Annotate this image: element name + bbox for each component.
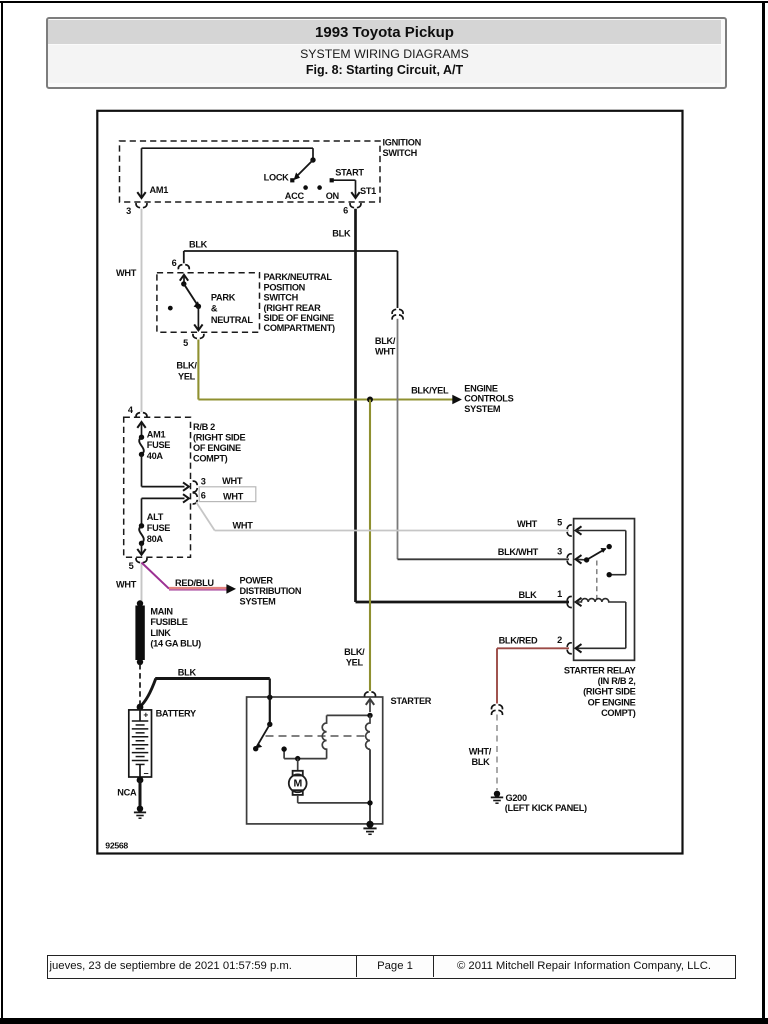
battery plates: [132, 720, 149, 722]
svg-text:SYSTEM: SYSTEM: [464, 404, 501, 414]
header title bar: [48, 20, 721, 44]
wire WHT R/B2 to fusible link: [141, 563, 143, 604]
svg-text:3: 3: [557, 547, 562, 557]
svg-text:&: &: [211, 304, 218, 314]
ignition switch dashed box: [120, 141, 381, 202]
svg-text:2: 2: [557, 635, 562, 645]
svg-text:5: 5: [557, 517, 562, 527]
svg-text:ENGINE: ENGINE: [464, 383, 498, 393]
relay coil to pin 2 wire: [625, 602, 627, 648]
arrow to engine controls system: [452, 395, 462, 405]
inline connector C on BLK/WHT: [392, 309, 403, 314]
wire BLK/RED to relay: [497, 647, 569, 649]
AM1 fuse element: [139, 437, 144, 454]
connector pin 3 ignition: [136, 203, 147, 208]
svg-text:WHT: WHT: [375, 346, 396, 356]
G200 ground symbol: [494, 791, 500, 797]
wire START to ST1: [334, 179, 356, 181]
svg-text:BLK: BLK: [178, 667, 197, 677]
svg-text:(RIGHT SIDE: (RIGHT SIDE: [583, 687, 636, 697]
svg-text:DISTRIBUTION: DISTRIBUTION: [240, 586, 302, 596]
svg-text:PARK: PARK: [211, 293, 236, 303]
svg-text:AM1: AM1: [147, 429, 166, 439]
battery ground symbol: [137, 806, 143, 812]
LOCK contact: [290, 178, 294, 182]
svg-text:BLK/RED: BLK/RED: [499, 636, 538, 646]
solenoid contact dot: [281, 746, 286, 751]
arrow to power distribution system: [226, 584, 236, 594]
arrow to R/B2 pin 3: [183, 482, 189, 490]
footer page cell: [357, 956, 433, 977]
park/neutral lower contact dot: [196, 304, 201, 309]
starter feed entry dot: [267, 695, 272, 700]
motor upper brush: [293, 771, 303, 776]
svg-text:WHT: WHT: [116, 580, 137, 590]
svg-text:NEUTRAL: NEUTRAL: [211, 315, 253, 325]
svg-text:START: START: [335, 168, 364, 178]
connector pin 6 park/neutral: [178, 265, 189, 270]
main fusible link body: [135, 606, 144, 661]
ALT fuse bottom dot: [139, 541, 144, 546]
svg-text:(RIGHT SIDE: (RIGHT SIDE: [193, 433, 246, 443]
wire WHT AM1 to R/B2: [141, 209, 143, 412]
START contact: [330, 178, 334, 182]
wire BLK to relay pin 1 horizontal: [356, 601, 570, 604]
wire battery to ground: [139, 780, 142, 808]
svg-text:40A: 40A: [147, 451, 164, 461]
wire RED/BLU diagonal: [142, 563, 170, 589]
svg-text:POWER: POWER: [240, 575, 274, 585]
starter pull-in coil: [322, 715, 326, 758]
AM1 fuse top dot: [139, 435, 144, 440]
relay blade: [587, 549, 606, 560]
svg-text:6: 6: [343, 206, 348, 216]
svg-text:SWITCH: SWITCH: [383, 148, 418, 158]
svg-text:92568: 92568: [105, 840, 128, 850]
svg-text:(IN R/B 2,: (IN R/B 2,: [598, 676, 636, 686]
svg-text:R/B 2: R/B 2: [193, 422, 215, 432]
wire BLK/WHT to relay pin 3: [398, 558, 570, 560]
wire BLK from ST1 vertical: [354, 209, 357, 602]
svg-text:ALT: ALT: [147, 512, 164, 522]
wire WHT horizontal to relay pin 5: [215, 530, 569, 532]
svg-text:(RIGHT REAR: (RIGHT REAR: [264, 303, 322, 313]
svg-text:3: 3: [126, 206, 131, 216]
page border right: [762, 1, 765, 1023]
motor M circle: [289, 774, 307, 792]
wire solenoid bottom horizontal: [284, 758, 327, 760]
svg-text:ST1: ST1: [360, 186, 376, 196]
battery minus stub: [139, 765, 141, 778]
svg-text:ACC: ACC: [285, 191, 305, 201]
relay coil: [576, 599, 626, 602]
relay pin5 internal wire: [576, 530, 626, 532]
svg-text:OF ENGINE: OF ENGINE: [193, 443, 241, 453]
svg-text:6: 6: [172, 258, 177, 268]
arrow relay pin 2: [576, 644, 582, 652]
svg-text:COMPT): COMPT): [193, 453, 228, 463]
connector relay pin 3: [567, 554, 572, 565]
connector starter top: [365, 692, 376, 697]
svg-text:BATTERY: BATTERY: [156, 709, 196, 719]
arrow into starter top: [366, 699, 374, 705]
battery bottom terminal dot: [137, 777, 144, 784]
ON contact dot: [317, 185, 322, 190]
svg-text:+: +: [143, 709, 148, 719]
svg-text:PARK/NEUTRAL: PARK/NEUTRAL: [264, 272, 333, 282]
connector pin 4 R/B2: [136, 413, 147, 418]
page border top: [0, 1, 768, 3]
wire WHT diagonal from pin 6: [196, 502, 215, 530]
svg-text:80A: 80A: [147, 534, 164, 544]
wire solenoid top horizontal: [327, 714, 370, 716]
svg-text:WHT/: WHT/: [469, 746, 492, 756]
connector relay pin 2: [567, 643, 572, 654]
park/neutral blade: [184, 284, 198, 305]
wire ALT fuse to pin 5: [141, 543, 143, 555]
svg-text:–: –: [144, 768, 149, 778]
svg-text:COMPT): COMPT): [601, 708, 636, 718]
svg-text:(LEFT KICK PANEL): (LEFT KICK PANEL): [505, 803, 587, 813]
svg-text:BLK/: BLK/: [176, 361, 197, 371]
wire motor to ground bus: [297, 795, 299, 803]
svg-text:NCA: NCA: [117, 787, 137, 797]
wire BLK/YEL from pin 5 down: [197, 340, 199, 400]
wire pin4 to AM1 fuse: [141, 422, 143, 437]
header sub area: [48, 45, 721, 83]
svg-text:M: M: [293, 778, 302, 790]
starter relay solid box: [574, 519, 635, 661]
svg-text:SYSTEM: SYSTEM: [240, 597, 277, 607]
wire starter feed vertical: [269, 679, 271, 725]
wire BLK/RED vertical: [496, 648, 498, 703]
connector pin 6 ignition: [350, 203, 361, 208]
svg-text:WHT: WHT: [116, 268, 137, 278]
connector relay pin 5: [567, 525, 572, 536]
svg-text:BLK/WHT: BLK/WHT: [498, 547, 539, 557]
ignition switch blade: [298, 160, 314, 176]
relay upper contact dot: [607, 544, 612, 549]
battery plus stub: [139, 707, 141, 721]
wire BLK battery feed horizontal: [155, 677, 270, 680]
svg-text:WHT: WHT: [232, 521, 253, 531]
page border left: [1, 1, 3, 1023]
wire blade to pin 5: [197, 306, 199, 330]
svg-text:SWITCH: SWITCH: [264, 293, 299, 303]
junction dot starter ground bus: [367, 800, 372, 805]
diagram outer border: [97, 111, 682, 854]
ignition blade pivot: [310, 157, 315, 162]
relay armature dashed: [596, 561, 598, 602]
svg-text:5: 5: [129, 561, 134, 571]
arrow into R/B2 pin 5: [137, 549, 145, 555]
svg-text:BLK/: BLK/: [375, 336, 396, 346]
main fusible link top dot: [137, 600, 143, 606]
svg-text:LINK: LINK: [150, 628, 171, 638]
park/neutral left contact dot: [168, 306, 173, 311]
starter switch contact dot: [253, 746, 258, 751]
svg-text:5: 5: [183, 338, 188, 348]
battery box: [129, 710, 152, 777]
wire AM1 fuse to pin 3: [141, 454, 143, 486]
arrow to R/B2 pin 6: [183, 494, 189, 502]
arrow to pin 4 inside: [137, 422, 145, 428]
solenoid contact stub: [283, 750, 285, 759]
svg-text:G200: G200: [506, 793, 527, 803]
wire battery to BLK curve: [140, 679, 156, 707]
highlight box around 6 WHT: [199, 487, 256, 502]
junction dot hold coil top: [367, 713, 372, 718]
arrow into pin 5: [194, 324, 202, 330]
wire BLK/WHT below inline connector: [397, 319, 399, 560]
inline connector on WHT/BLK: [492, 705, 503, 710]
starter linkage dashed: [266, 735, 369, 737]
svg-text:SIDE OF ENGINE: SIDE OF ENGINE: [264, 313, 335, 323]
wire ALT fuse to pin 6: [141, 498, 143, 525]
wire motor feed: [297, 759, 299, 771]
starter switch blade: [256, 724, 270, 747]
footer copyright cell: [434, 956, 734, 977]
main fusible link bottom dot: [137, 659, 143, 665]
wire starter main vertical: [369, 749, 371, 824]
wire blade riser: [312, 148, 314, 160]
arrow into ST1 pin 6: [351, 192, 359, 198]
arrow to pin 6 inside: [180, 275, 188, 281]
svg-text:YEL: YEL: [346, 658, 364, 668]
starter ground symbol: [366, 821, 373, 828]
svg-text:FUSE: FUSE: [147, 523, 170, 533]
svg-text:YEL: YEL: [178, 371, 196, 381]
starter switch upper dot: [267, 722, 272, 727]
junction dot BLK/YEL: [367, 397, 373, 403]
wire BLK/YEL horizontal to engine controls: [198, 398, 452, 400]
ACC contact dot: [303, 185, 308, 190]
svg-text:STARTER: STARTER: [391, 696, 432, 706]
svg-text:POSITION: POSITION: [264, 282, 306, 292]
svg-text:IGNITION: IGNITION: [383, 137, 422, 147]
svg-text:RED/BLU: RED/BLU: [175, 578, 214, 588]
wire dashed link to battery: [139, 664, 141, 705]
svg-text:OF ENGINE: OF ENGINE: [588, 697, 636, 707]
connector R/B2 pin 5: [136, 558, 147, 563]
svg-text:6: 6: [201, 490, 206, 500]
svg-text:BLK/: BLK/: [344, 647, 365, 657]
wire BLK vertical to inline connector: [397, 251, 399, 308]
svg-text:BLK: BLK: [332, 229, 351, 239]
svg-text:BLK/YEL: BLK/YEL: [411, 385, 449, 395]
arrow relay pin 3: [576, 555, 582, 563]
motor branch junction dot: [295, 756, 300, 761]
svg-text:BLK: BLK: [519, 590, 538, 600]
connector R/B2 pin 6: [193, 493, 198, 504]
ALT fuse element: [139, 526, 144, 544]
svg-text:STARTER RELAY: STARTER RELAY: [564, 665, 636, 675]
svg-text:(14 GA BLU): (14 GA BLU): [150, 639, 201, 649]
svg-text:CONTROLS: CONTROLS: [464, 394, 513, 404]
svg-text:BLK: BLK: [189, 239, 208, 249]
relay pivot dot: [584, 557, 589, 562]
svg-text:4: 4: [128, 405, 134, 415]
relay pin3 internal wire: [576, 558, 587, 561]
connector relay pin 1: [567, 597, 572, 608]
svg-text:AM1: AM1: [150, 185, 169, 195]
AM1 fuse bottom dot: [139, 452, 144, 457]
wire ignition feed horizontal: [142, 147, 314, 149]
arrow relay pin 5: [576, 526, 582, 534]
park/neutral switch dashed box: [157, 273, 260, 332]
starter solid box: [247, 697, 383, 824]
starter hold-in coil: [366, 715, 370, 749]
connector R/B2 pin 3: [193, 481, 198, 492]
header box: [46, 17, 727, 89]
wire WHT/BLK dashed to G200: [496, 715, 498, 791]
arrow into pin 3: [137, 192, 145, 198]
arrow relay pin 1: [576, 598, 582, 606]
wire BLK park/neutral top: [184, 250, 398, 252]
connector pin 5 park/neutral: [193, 334, 204, 339]
footer box: [47, 955, 736, 979]
svg-text:WHT: WHT: [517, 519, 538, 529]
wire RED/BLU horizontal: [169, 587, 227, 589]
svg-text:MAIN: MAIN: [150, 606, 173, 616]
svg-text:COMPARTMENT): COMPARTMENT): [264, 323, 335, 333]
footer divider 2: [433, 956, 434, 977]
footer divider 1: [356, 956, 357, 977]
ALT fuse top dot: [139, 523, 144, 528]
svg-text:WHT: WHT: [223, 491, 244, 501]
svg-text:FUSIBLE: FUSIBLE: [150, 617, 187, 627]
R/B 2 dashed box: [124, 417, 191, 557]
wire BLK/YEL down to starter: [369, 400, 371, 692]
battery plus terminal dot: [137, 704, 144, 711]
page border bottom: [0, 1018, 768, 1024]
svg-text:WHT: WHT: [222, 476, 243, 486]
svg-text:LOCK: LOCK: [264, 173, 289, 183]
park/neutral pivot dot: [181, 281, 186, 286]
wire pivot riser: [183, 275, 185, 284]
footer date cell: [50, 956, 292, 977]
svg-text:BLK: BLK: [472, 757, 491, 767]
svg-text:FUSE: FUSE: [147, 440, 170, 450]
wire ignition AM1 vertical: [141, 148, 143, 198]
svg-text:1: 1: [557, 589, 562, 599]
relay fixed contact dot: [607, 572, 612, 577]
svg-text:ON: ON: [326, 191, 340, 201]
svg-text:3: 3: [201, 476, 206, 486]
motor lower brush: [293, 790, 303, 795]
